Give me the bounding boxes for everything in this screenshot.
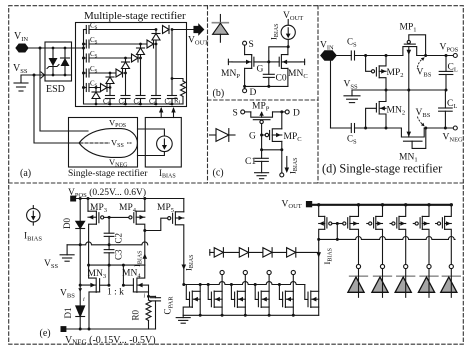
wire drop2 + capacitor CS bottom2 bbox=[119, 73, 131, 107]
SECTION-D bbox=[320, 23, 463, 176]
svg-text:C2: C2 bbox=[114, 233, 124, 244]
svg-text:Multiple-stage rectifier: Multiple-stage rectifier bbox=[84, 10, 186, 22]
transistor replica P2 bbox=[337, 205, 358, 264]
diode open symbol (c) bbox=[210, 129, 236, 142]
svg-text:D1: D1 bbox=[63, 308, 73, 319]
SECTION-E-RIGHT bbox=[176, 199, 460, 323]
transistor replica P3 bbox=[367, 205, 383, 264]
lens shape bbox=[79, 129, 137, 158]
wire mid cell A vertical bbox=[199, 285, 201, 316]
multiple-stage rectifier box bbox=[76, 23, 187, 107]
diode ladder row4 right bbox=[116, 69, 127, 77]
wire gate feedback bbox=[269, 47, 288, 62]
node D terminal (c) bbox=[285, 109, 300, 119]
transistor MN1 bbox=[399, 127, 427, 164]
diode ladder row2 right bbox=[147, 40, 157, 48]
arrow IBIAS (c) bbox=[285, 157, 290, 174]
diode ladder stage4 up bbox=[137, 43, 145, 58]
transistor mid replica MA bbox=[183, 285, 200, 316]
capacitor C0 bbox=[263, 62, 287, 87]
capacitor CS row1 bbox=[84, 22, 157, 34]
diode ladder stage3 up bbox=[122, 57, 130, 73]
transistor replica P6 bbox=[436, 205, 452, 264]
node VIN terminal bbox=[14, 31, 28, 52]
node bus junctions bbox=[82, 43, 85, 46]
transistor MP5 bbox=[143, 199, 184, 285]
capacitor CL upper bbox=[439, 56, 458, 91]
wire ESD top rail bbox=[45, 47, 76, 49]
ground bbox=[14, 83, 28, 91]
wire VNEG rail bbox=[66, 328, 155, 330]
diode replica cell 5 bbox=[441, 264, 460, 297]
svg-text:C1: C1 bbox=[245, 157, 256, 167]
capacitor CS row5 bbox=[84, 80, 111, 92]
wire drop5 + capacitor CL bottom5 bbox=[165, 30, 177, 108]
svg-text:D: D bbox=[250, 88, 257, 98]
wire drop3 + capacitor CS bottom3 bbox=[134, 58, 146, 107]
diode D1 bbox=[63, 306, 85, 329]
svg-text:Single-stage rectifier: Single-stage rectifier bbox=[68, 168, 148, 179]
svg-text:(c): (c) bbox=[213, 168, 224, 179]
label VBS bottom with dashed arrow bbox=[416, 108, 431, 126]
wire output row1 bbox=[172, 29, 194, 31]
wire mirror node line bbox=[89, 264, 145, 266]
node P1 gate dot bbox=[336, 222, 339, 225]
diode gray symbol (b) bbox=[212, 15, 228, 43]
diode D0 bbox=[62, 199, 85, 245]
transistor mid replica MD bbox=[255, 285, 269, 308]
svg-text:G: G bbox=[257, 65, 264, 75]
node G bbox=[260, 134, 263, 137]
capacitor CS top (d) bbox=[347, 37, 357, 61]
wires linking blocks bbox=[138, 129, 165, 136]
transistor MP1 bbox=[400, 23, 426, 56]
single-stage rectifier block box bbox=[69, 118, 138, 168]
node VBS bbox=[79, 284, 82, 287]
transistor replica P1 bbox=[319, 205, 338, 240]
node mid terminal at 293.3 bbox=[291, 270, 295, 316]
diode ladder row5 right bbox=[101, 84, 112, 92]
node G bbox=[267, 60, 270, 63]
capacitor CS row2 bbox=[84, 36, 157, 48]
wire source to node bbox=[287, 39, 289, 46]
node mid terminal at 222.1 bbox=[220, 270, 224, 316]
wire chain vertical with IBIAS arrow bbox=[318, 239, 320, 315]
wire drop1 + capacitor CS bottom1 bbox=[103, 88, 115, 108]
current source IBIAS (b) bbox=[281, 25, 295, 39]
transistor MP2 bbox=[364, 54, 403, 90]
wire MN4 bulk vertical bbox=[148, 285, 150, 292]
capacitor CL lower bbox=[439, 90, 458, 128]
wire arrow into ESD bbox=[41, 72, 45, 78]
resistor R0 bbox=[131, 296, 152, 329]
svg-text:(a): (a) bbox=[20, 168, 31, 179]
wire bottom rail to VNEG bbox=[424, 127, 453, 129]
wire D branch down + terminal bbox=[280, 150, 284, 177]
node VIN terminal (d) bbox=[320, 41, 336, 61]
transistor MN4 bbox=[122, 265, 149, 296]
node C2-VSS dot bbox=[108, 243, 111, 246]
wire VIN rail top bbox=[336, 55, 351, 57]
node VPOS square terminal bbox=[70, 196, 76, 202]
wire VOUT down bbox=[287, 20, 289, 26]
transistor MPC bbox=[262, 112, 302, 150]
node junction VIN-down bbox=[39, 47, 42, 50]
ground (c) bbox=[255, 161, 269, 178]
transistor MP4 bbox=[119, 199, 145, 266]
diode ESD up bbox=[61, 47, 70, 77]
node VPOS terminal bbox=[440, 43, 459, 58]
transistor mid replica MF bbox=[305, 285, 319, 308]
svg-text:S: S bbox=[233, 109, 238, 119]
svg-text:D: D bbox=[293, 109, 300, 119]
wire VBS column bbox=[79, 245, 81, 306]
wire VIN bus down (d) bbox=[330, 57, 332, 128]
capacitor CPAR bbox=[149, 296, 175, 329]
node drain junction bbox=[287, 45, 290, 48]
svg-text:D0: D0 bbox=[62, 218, 72, 229]
svg-text:ESD: ESD bbox=[46, 84, 65, 95]
SECTION-C bbox=[210, 102, 302, 179]
svg-text:(e): (e) bbox=[40, 328, 51, 339]
transistor MPP bbox=[245, 102, 273, 136]
label VBS top with dashed arrow bbox=[417, 57, 432, 78]
node mid terminal at 245.3 bbox=[243, 270, 247, 316]
wire rail to MP1 bbox=[355, 55, 403, 57]
capacitor C3 bbox=[104, 245, 123, 265]
wire bottom rail to MN1 bbox=[355, 127, 402, 129]
wire MP1 bulk vertical bbox=[407, 47, 412, 90]
node S terminal (c) bbox=[233, 109, 245, 119]
capacitor C2 bbox=[104, 217, 123, 244]
node mirror gate dot bbox=[108, 216, 111, 219]
wire VSS bbox=[21, 75, 45, 82]
diode ladder row3 right bbox=[132, 54, 142, 62]
wire bias arrows into rectifier bbox=[159, 107, 176, 118]
wire VSS line (e) with hop bbox=[67, 242, 148, 245]
arrow current mark D1 bbox=[78, 288, 82, 292]
diode ladder row1 right bbox=[163, 26, 174, 34]
capacitor CS row3 bbox=[84, 50, 141, 62]
node mid terminal at 269.1 bbox=[267, 270, 271, 316]
wire VSS rail (d) bbox=[352, 89, 446, 91]
wire VOUT rail bbox=[312, 204, 451, 206]
wire left bus bbox=[84, 30, 184, 105]
label VSS (on white) bbox=[110, 138, 127, 150]
wire VSS dashed center bbox=[80, 142, 131, 144]
wire VSS vertical down bbox=[34, 75, 79, 143]
wire mid bottom rail bbox=[183, 314, 319, 316]
transistor MNC bbox=[269, 47, 308, 87]
transistor mid replica ME bbox=[279, 285, 293, 308]
wire mirror gate line bbox=[109, 216, 129, 218]
capacitor CS bottom (d) bbox=[347, 124, 357, 146]
wire bottom rail left bbox=[331, 127, 352, 129]
diode ladder stage1 up bbox=[92, 86, 100, 105]
node VOUT arrow terminal bbox=[188, 25, 208, 47]
wire bottom rail (c) bbox=[262, 149, 282, 151]
SECTION-A bbox=[13, 10, 208, 180]
diode ESD zener bbox=[47, 47, 59, 77]
node junction VSS-down bbox=[33, 74, 36, 77]
wire bottom rail (b) bbox=[245, 85, 288, 87]
ground VSS (e) bbox=[44, 245, 74, 270]
diode ladder stage5 up bbox=[152, 28, 160, 44]
wire ESD bottom rail bbox=[45, 74, 72, 76]
capacitor C1 bbox=[245, 150, 268, 167]
diode replica cell 1 bbox=[348, 264, 367, 297]
capacitor CS row4 bbox=[84, 65, 126, 77]
IBIAS block box bbox=[145, 118, 181, 168]
SECTION-E-LEFT bbox=[24, 187, 195, 347]
node VNEG square terminal bbox=[61, 326, 67, 332]
wire VIN to ESD and bus bbox=[28, 47, 84, 49]
wire VIN vertical down bbox=[40, 48, 88, 131]
wire rail to VPOS bbox=[417, 55, 454, 57]
wire drop4 + capacitor CS bottom4 bbox=[149, 44, 161, 107]
ground (d) bbox=[344, 90, 360, 103]
resistor RL bbox=[171, 77, 186, 106]
svg-text:S: S bbox=[249, 40, 254, 50]
svg-text:C3: C3 bbox=[114, 249, 124, 260]
arrow IBIAS up on MP4 drain bbox=[132, 250, 147, 267]
svg-text:(d) Single-stage rectifier: (d) Single-stage rectifier bbox=[322, 162, 442, 176]
node S terminal bbox=[243, 40, 254, 50]
current source IBIAS bbox=[157, 136, 173, 152]
ground mid bbox=[176, 315, 190, 323]
current source IBIAS legend bbox=[24, 206, 42, 243]
diode ladder stage2 up bbox=[106, 72, 114, 88]
node D terminal bbox=[243, 86, 257, 98]
transistor replica P5 bbox=[413, 205, 429, 264]
diode replica cell 4 bbox=[418, 264, 437, 297]
SECTION-B bbox=[212, 11, 307, 99]
svg-text:C0: C0 bbox=[276, 74, 287, 84]
wire MN1 bulk vertical bbox=[407, 90, 412, 137]
ESD box bbox=[45, 42, 72, 81]
node VNEG terminal bbox=[443, 126, 464, 143]
transistor MP3 bbox=[88, 199, 109, 266]
svg-text:(b): (b) bbox=[213, 88, 225, 99]
wire VPOS rail (e) bbox=[76, 198, 184, 200]
node R0 top bbox=[147, 295, 150, 298]
transistor replica P4 bbox=[390, 205, 406, 264]
svg-text:R0: R0 bbox=[131, 309, 141, 320]
arrow IBIAS down on MP5 drain bbox=[182, 254, 196, 271]
diode replica cell 3 bbox=[395, 264, 414, 297]
svg-text:1 : k: 1 : k bbox=[107, 288, 124, 298]
wire rail to D bbox=[273, 111, 286, 113]
diode chain (4 diodes) bbox=[210, 248, 319, 257]
transistor MNP bbox=[221, 45, 269, 86]
wire gate bias line with hops bbox=[319, 236, 455, 239]
transistor mid replica MC bbox=[231, 285, 245, 308]
transistor MN2 bbox=[364, 90, 405, 130]
wire mid gate bus with hops bbox=[184, 282, 305, 285]
transistor mid replica MB bbox=[208, 285, 222, 308]
svg-text:G: G bbox=[249, 132, 256, 142]
transistor MN3 bbox=[80, 265, 110, 329]
diode replica cell 2 bbox=[372, 264, 391, 297]
